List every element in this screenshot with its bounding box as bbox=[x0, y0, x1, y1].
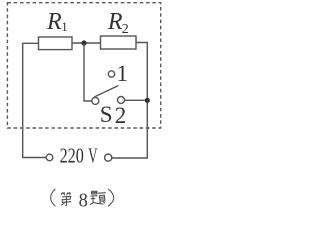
svg-text:2: 2 bbox=[122, 22, 129, 37]
caption character Ti (题) bbox=[90, 191, 106, 204]
terminal right bbox=[105, 154, 112, 161]
svg-text:V: V bbox=[88, 144, 97, 168]
resistor R2 bbox=[101, 36, 137, 49]
svg-text:220: 220 bbox=[60, 144, 84, 168]
svg-text:1: 1 bbox=[61, 19, 68, 34]
resistor R1 bbox=[39, 37, 73, 50]
svg-text:R: R bbox=[107, 9, 123, 35]
switch S pivot bbox=[92, 97, 99, 104]
switch contact 2 bbox=[118, 97, 125, 104]
node junction B bbox=[145, 98, 150, 103]
wire left branch (R1 left to bottom-left terminal) bbox=[23, 43, 47, 157]
terminal left bbox=[46, 154, 53, 161]
svg-text:8: 8 bbox=[79, 189, 88, 211]
dashed enclosure box bbox=[7, 3, 160, 128]
wire junction A down to switch pivot bbox=[84, 43, 92, 101]
node junction A bbox=[81, 40, 86, 45]
svg-text:1: 1 bbox=[117, 61, 129, 86]
svg-text:2: 2 bbox=[115, 103, 127, 128]
switch contact 1 bbox=[108, 71, 114, 77]
caption open paren bbox=[51, 189, 56, 206]
wire R1 to R2 bbox=[72, 42, 101, 44]
caption character Di (第) bbox=[61, 192, 71, 206]
switch S lever bbox=[94, 86, 118, 97]
svg-text:R: R bbox=[46, 9, 62, 35]
caption close paren bbox=[108, 189, 114, 206]
wire R2 right to bottom-right terminal bbox=[112, 43, 147, 159]
wire contact 2 to junction B bbox=[125, 99, 146, 101]
svg-text:S: S bbox=[100, 102, 113, 127]
